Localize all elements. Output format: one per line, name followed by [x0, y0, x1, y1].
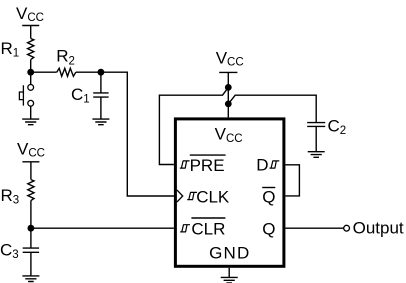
node A junction dot: [27, 69, 34, 76]
wire node A to R2: [31, 71, 57, 73]
capacitor C2: [307, 123, 325, 152]
svg-text:R1: R1: [1, 39, 20, 60]
node B junction dot: [98, 69, 105, 76]
svg-text:Output: Output: [353, 219, 404, 238]
wire node C to CLR: [31, 227, 174, 229]
svg-text:C2: C2: [328, 117, 347, 138]
svg-text:VCC: VCC: [216, 48, 244, 68]
ground below switch: [22, 119, 39, 125]
svg-text:CLR: CLR: [191, 220, 225, 239]
capacitor C3: [23, 228, 39, 276]
pin CLR pulse symbol: [180, 225, 190, 232]
svg-text:GND: GND: [209, 243, 250, 262]
pin D pulse symbol: [270, 161, 280, 168]
Vcc symbol bottom-left: [22, 162, 39, 180]
Vcc symbol top-left: [22, 26, 39, 39]
Vcc upper junction dot: [225, 84, 232, 91]
svg-text:VCC: VCC: [16, 4, 44, 24]
pin PRE overline: [190, 154, 226, 156]
output terminal circle: [344, 225, 350, 231]
svg-text:C3: C3: [0, 240, 19, 261]
svg-text:R3: R3: [1, 186, 20, 207]
pin CLR overline: [191, 217, 225, 219]
wire Vcc to C2: [228, 95, 316, 122]
Vcc symbol top-middle: [219, 72, 237, 117]
resistor R2: [57, 68, 76, 76]
switch S1: [28, 85, 34, 91]
ground below C2: [308, 152, 325, 158]
wire R3 to node C: [30, 200, 32, 228]
flip-flop U1 box: [175, 119, 284, 266]
ground below C3: [22, 276, 39, 282]
wire node B to CLK: [101, 72, 174, 196]
svg-text:VCC: VCC: [215, 125, 243, 145]
svg-text:R2: R2: [56, 47, 75, 68]
resistor R3: [28, 180, 34, 201]
svg-text:PRE: PRE: [190, 156, 225, 175]
wire R1 to node A: [30, 60, 32, 73]
svg-text:VCC: VCC: [17, 140, 45, 160]
pin CLK edge triangle: [177, 190, 183, 202]
svg-text:Q: Q: [262, 188, 275, 207]
svg-text:Q: Q: [262, 220, 275, 239]
pin CLK pulse symbol: [187, 192, 197, 199]
wire switch to ground: [30, 106, 32, 119]
ground below C1: [92, 119, 109, 125]
wire Vcc to PRE: [159, 87, 228, 164]
resistor R1: [28, 39, 34, 60]
svg-text:D: D: [256, 156, 268, 175]
ground below flip-flop: [221, 268, 238, 283]
wire D to Qbar loop: [285, 165, 299, 196]
wire R2 to node B: [76, 71, 101, 73]
node C junction dot: [28, 225, 35, 232]
capacitor C1: [93, 72, 108, 119]
svg-text:C1: C1: [71, 85, 90, 106]
pin PRE pulse symbol: [180, 161, 190, 168]
wire node A to switch: [30, 72, 32, 84]
pin Qbar overline: [262, 187, 275, 189]
wire Q to output: [285, 227, 343, 229]
Vcc lower junction dot: [225, 101, 232, 108]
svg-text:CLK: CLK: [196, 187, 230, 206]
